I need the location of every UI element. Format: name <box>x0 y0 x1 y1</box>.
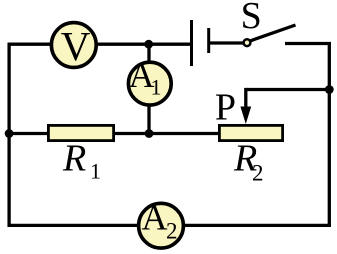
wire: A1 branch vertical <box>147 44 150 134</box>
svg-text:S: S <box>241 0 262 37</box>
ammeter A2 <box>139 203 184 248</box>
wire: switch fixed contact <box>285 42 331 45</box>
svg-text:1: 1 <box>151 75 162 100</box>
wire: wiper horizontal <box>246 88 329 91</box>
svg-text:R: R <box>62 138 86 180</box>
svg-text:2: 2 <box>166 219 178 244</box>
switch S blade <box>251 25 296 41</box>
svg-text:1: 1 <box>90 159 101 184</box>
ammeter A1 <box>128 62 171 105</box>
wire: battery to switch pivot <box>209 41 244 44</box>
voltmeter V <box>51 23 96 68</box>
battery short plate <box>207 28 210 53</box>
wire: wiper vertical <box>244 88 247 110</box>
wire: bottom horizontal <box>8 224 331 227</box>
svg-text:P: P <box>215 87 236 129</box>
wire: left vertical <box>7 43 10 227</box>
resistor R2 (rheostat) <box>219 125 282 140</box>
junction dot right (wiper branch) <box>325 85 334 94</box>
wiper arrowhead <box>240 107 251 125</box>
resistor R1 <box>48 125 113 140</box>
battery long plate <box>190 20 193 66</box>
svg-text:V: V <box>61 23 91 69</box>
svg-text:A: A <box>142 198 168 238</box>
svg-text:2: 2 <box>252 161 264 186</box>
junction dot top (A1 branch) <box>144 40 153 49</box>
switch S pivot <box>244 39 251 46</box>
junction dot left (middle wire) <box>5 129 14 138</box>
wire: middle horizontal (R1-R2 row) <box>8 132 218 135</box>
junction dot middle (A1 branch bottom) <box>145 129 154 138</box>
wire: top horizontal to battery <box>8 43 192 46</box>
wire: right vertical <box>328 42 331 227</box>
